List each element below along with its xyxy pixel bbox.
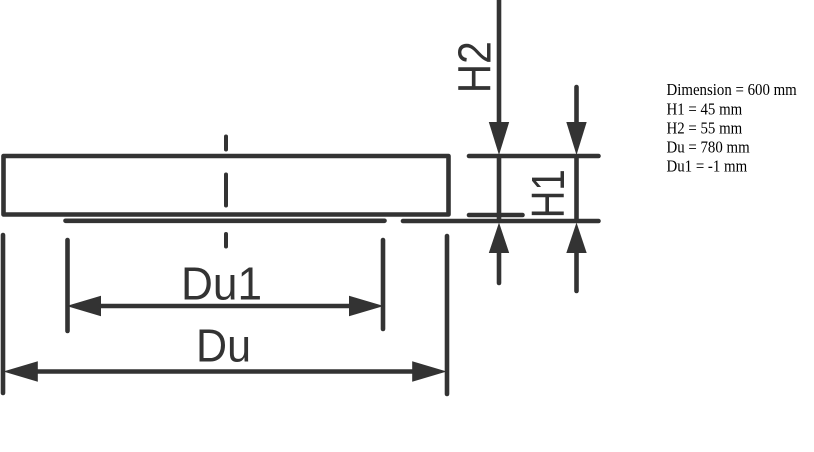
centerline dash 3 — [224, 234, 228, 247]
centerline dash 1 — [224, 137, 228, 150]
H2 dimension line lower tail — [497, 250, 502, 283]
svg-text:Dimension = 600 mm: Dimension = 600 mm — [667, 81, 798, 99]
bottom extension line — [403, 219, 599, 224]
H1 bottom arrowhead (up) — [566, 223, 586, 254]
Du1 left extension line — [65, 240, 70, 331]
H2 dimension line middle — [497, 157, 502, 219]
H1 dimension line middle — [574, 157, 579, 219]
H1 dimension line lower tail — [574, 250, 579, 291]
H2 dimension line upper tail — [497, 0, 502, 124]
svg-text:Du = 780 mm: Du = 780 mm — [667, 139, 751, 157]
svg-text:Du: Du — [196, 320, 251, 372]
Du1 right extension line — [381, 240, 386, 329]
Du1 right arrowhead — [349, 296, 384, 316]
H1 top arrowhead (down) — [566, 122, 586, 155]
Du right extension line — [445, 236, 450, 394]
Du dimension line — [35, 369, 415, 374]
H2 bottom arrowhead (up) — [489, 223, 509, 254]
plate body rectangle — [4, 156, 449, 215]
svg-text:H1: H1 — [522, 169, 574, 218]
svg-text:H2: H2 — [449, 41, 501, 93]
Du1 left arrowhead — [67, 296, 102, 316]
Du left arrowhead — [3, 361, 38, 381]
svg-text:H2 = 55 mm: H2 = 55 mm — [667, 120, 743, 138]
svg-text:Du1: Du1 — [181, 258, 262, 310]
lip bottom line — [66, 219, 385, 224]
Du left extension line — [1, 235, 6, 393]
Du1 dimension line — [99, 304, 351, 309]
middle short extension line — [469, 213, 523, 218]
H2 top arrowhead (down) — [489, 122, 509, 155]
Du right arrowhead — [412, 361, 447, 381]
centerline dash 2 — [224, 175, 228, 206]
top extension line — [469, 154, 599, 159]
H1 dimension line upper tail — [574, 87, 579, 124]
svg-text:Du1 = -1 mm: Du1 = -1 mm — [667, 158, 748, 176]
svg-text:H1 = 45 mm: H1 = 45 mm — [667, 100, 743, 118]
